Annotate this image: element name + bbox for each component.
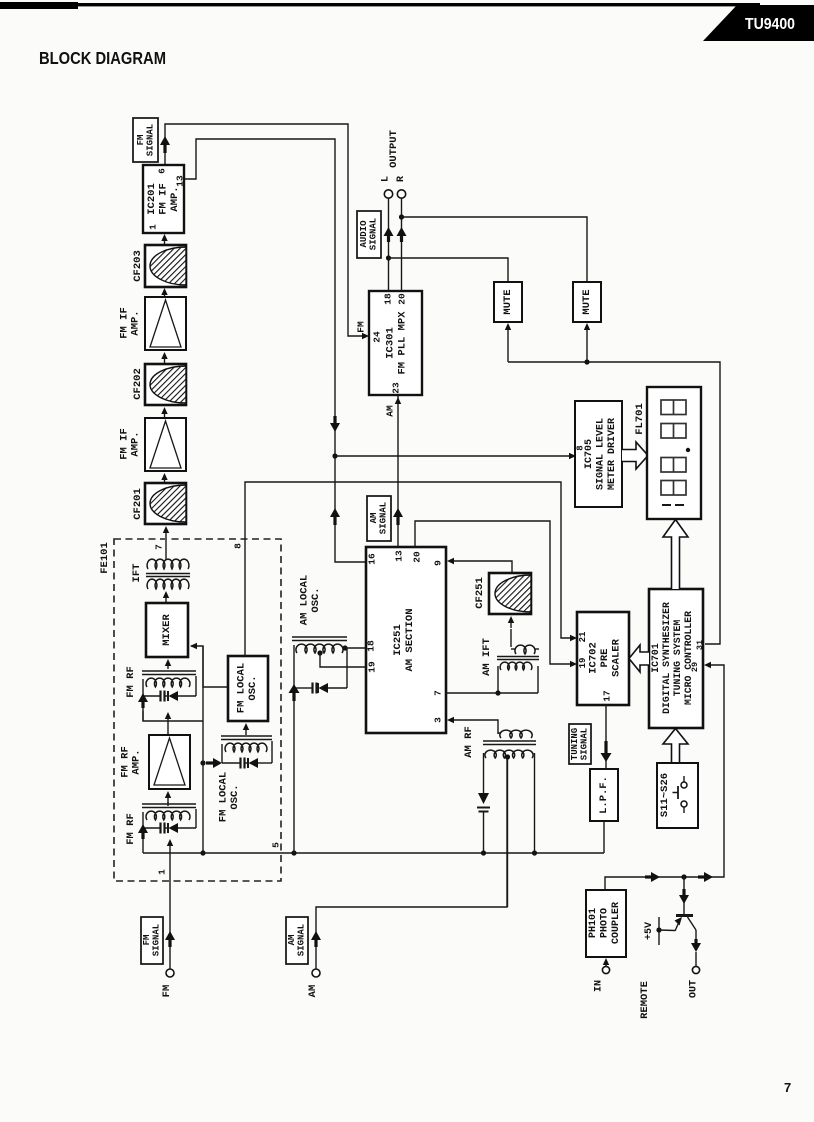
svg-text:1: 1	[157, 869, 168, 875]
svg-text:COUPLER: COUPLER	[611, 902, 622, 944]
wire IC301 pin20 to R output	[401, 199, 403, 292]
svg-text:AM: AM	[307, 985, 319, 998]
node tuning junction FE101	[200, 850, 205, 855]
svg-text:23: 23	[391, 382, 402, 394]
svg-text:24: 24	[372, 331, 383, 343]
amplifier FM IF AMP 1	[145, 297, 186, 350]
node mute2 branch	[584, 359, 589, 364]
wire IC251 pin20 AM LO to IC702 pin19	[415, 521, 571, 664]
photocoupler PH101	[586, 890, 626, 957]
black arrow audio R	[397, 227, 407, 236]
wire AM antenna to AM RF	[316, 758, 507, 969]
wire CF251 to IC251 pin9	[449, 561, 512, 573]
svg-text:AM RF: AM RF	[463, 726, 475, 758]
svg-text:OSC.: OSC.	[247, 675, 259, 700]
svg-text:REMOTE: REMOTE	[639, 981, 651, 1019]
svg-text:FM IF: FM IF	[158, 183, 170, 215]
svg-text:CF202: CF202	[132, 368, 144, 400]
svg-text:S11~S26: S11~S26	[659, 773, 671, 817]
svg-text:CF251: CF251	[474, 577, 486, 609]
wire L to MUTE1	[389, 258, 509, 282]
wire +5V supply	[658, 917, 660, 945]
svg-text:IC251: IC251	[392, 624, 404, 656]
node AM local center tap	[317, 650, 322, 655]
svg-text:IFT: IFT	[131, 564, 143, 583]
svg-text:CF203: CF203	[132, 250, 144, 282]
node AM RF ground leg	[532, 850, 537, 855]
wire FM local osc to mixer	[191, 646, 228, 687]
varactor arrow FM RF 1	[138, 824, 148, 833]
black arrow AM input	[311, 931, 321, 940]
ic IC701 DIGITAL SYNTHESIZER	[649, 589, 703, 728]
svg-text:31: 31	[695, 640, 705, 650]
wire coil to IC251 pin18	[345, 647, 366, 649]
svg-text:SIGNAL: SIGNAL	[151, 924, 161, 956]
node AM local varactor	[291, 850, 296, 855]
TU9400 model banner	[703, 5, 814, 41]
transformer IFT	[147, 559, 189, 569]
svg-text:SIGNAL: SIGNAL	[145, 124, 155, 156]
svg-text:17: 17	[602, 690, 613, 702]
module FE101 dashed outline	[114, 539, 281, 881]
node AM IFT to pin7	[495, 690, 500, 695]
svg-text:13: 13	[175, 175, 186, 187]
box FM SIGNAL top	[133, 118, 158, 162]
node L to mute1	[386, 255, 391, 260]
svg-text:IN: IN	[594, 980, 605, 992]
svg-text:FM PLL MPX: FM PLL MPX	[397, 311, 409, 375]
svg-text:IC301: IC301	[385, 327, 397, 359]
wire mixer to IFT	[163, 591, 169, 598]
mute MUTE 1	[494, 282, 522, 322]
svg-text:SIGNAL LEVEL: SIGNAL LEVEL	[596, 418, 607, 490]
svg-text:FM: FM	[142, 935, 152, 946]
svg-text:18: 18	[383, 293, 394, 305]
wire AM IFT to IC251 pin7	[446, 692, 538, 694]
svg-text:OUT: OUT	[689, 980, 700, 998]
varactor arrow FM RF 2	[138, 693, 148, 702]
node AM RF center tap	[505, 754, 510, 759]
node tuning to FM local tank	[200, 760, 205, 765]
wire FM IF amp to CF203	[161, 288, 167, 295]
transistor Q701 remote switch	[683, 877, 685, 914]
hollow arrow S11-S26 to IC701	[663, 729, 688, 764]
switch symbol	[681, 782, 687, 788]
svg-text:AM: AM	[369, 513, 379, 524]
filter CF201	[145, 483, 186, 524]
svg-text:29: 29	[690, 662, 700, 672]
box AM SIGNAL input	[286, 917, 308, 964]
svg-text:AM LOCAL: AM LOCAL	[298, 575, 310, 625]
svg-text:PRE: PRE	[599, 649, 611, 668]
wire tank to FM local osc	[243, 723, 249, 730]
svg-text:AM: AM	[287, 935, 297, 946]
black arrow FM IF level down	[330, 423, 340, 432]
svg-text:+5V: +5V	[644, 922, 655, 940]
black arrow remote 2	[704, 872, 713, 882]
box TUNING SIGNAL	[569, 724, 591, 764]
svg-text:20: 20	[397, 293, 408, 305]
svg-text:MUTE: MUTE	[581, 289, 593, 314]
svg-text:AMP.: AMP.	[130, 310, 142, 335]
svg-text:AMP.: AMP.	[131, 749, 143, 774]
varactor diode AM RF	[478, 793, 489, 804]
svg-text:SCALER: SCALER	[611, 638, 623, 677]
svg-text:SIGNAL: SIGNAL	[378, 502, 388, 534]
svg-text:TU9400: TU9400	[745, 16, 795, 33]
svg-text:IC705: IC705	[584, 439, 595, 469]
node AM local coil to pin18	[342, 645, 347, 650]
svg-text:AM: AM	[385, 405, 396, 417]
svg-text:MIXER: MIXER	[161, 614, 173, 646]
transformer AM IFT	[515, 645, 535, 654]
varactor arrow FM LOCAL	[213, 758, 222, 768]
terminal remote IN	[602, 966, 609, 973]
svg-text:L.P.F.: L.P.F.	[598, 776, 610, 814]
mute MUTE 2	[573, 282, 601, 322]
black arrow AM level up	[330, 508, 340, 517]
svg-text:PHOTO: PHOTO	[600, 908, 611, 938]
svg-text:TUNING SYSTEM: TUNING SYSTEM	[672, 620, 683, 697]
svg-text:1: 1	[148, 224, 159, 230]
black arrow tuning signal down	[601, 753, 612, 762]
svg-text:FL701: FL701	[634, 403, 646, 435]
digit 8 third	[661, 458, 686, 473]
tuned circuit FM LOCAL OSC tank	[221, 735, 272, 737]
wire LPF to tuning bus	[603, 821, 605, 853]
svg-text:FM: FM	[161, 985, 173, 998]
svg-text:IC702: IC702	[588, 642, 600, 674]
svg-text:AMP.: AMP.	[169, 186, 181, 211]
filter CF202	[145, 364, 186, 405]
svg-text:IC201: IC201	[146, 183, 158, 215]
svg-text:SIGNAL: SIGNAL	[579, 728, 589, 760]
svg-text:FM LOCAL: FM LOCAL	[217, 772, 229, 822]
filter CF251	[489, 573, 531, 614]
black arrow FM input	[165, 931, 175, 940]
wire IC702 pin17 to LPF	[605, 705, 607, 769]
svg-text:19: 19	[578, 658, 588, 669]
terminal AM antenna	[312, 969, 320, 977]
node remote to transistor	[681, 874, 686, 879]
filter CF203	[145, 245, 186, 287]
node R to mute2	[399, 214, 404, 219]
ic IC301 FM PLL MPX	[369, 291, 422, 395]
wire IC201 pin13 to meter node	[184, 139, 366, 562]
decimal point	[686, 448, 690, 452]
terminal L output	[384, 190, 392, 198]
node AM RF varactor	[481, 850, 486, 855]
svg-text:3: 3	[433, 717, 444, 723]
svg-text:DIGITAL SYNTHESIZER: DIGITAL SYNTHESIZER	[661, 602, 672, 714]
display FL701	[647, 387, 701, 519]
svg-text:6: 6	[157, 168, 168, 174]
svg-text:OSC.: OSC.	[229, 784, 241, 809]
wire meter node to IC705 pin8	[335, 455, 570, 457]
svg-text:FM RF: FM RF	[125, 666, 137, 698]
black arrow FM signal out	[160, 136, 170, 145]
svg-text:OUTPUT: OUTPUT	[388, 130, 400, 168]
svg-text:FM: FM	[136, 135, 146, 146]
hollow arrow IC701 to FL701	[663, 520, 688, 590]
wire AM RF to IC251 pin3	[449, 720, 498, 734]
svg-text:19: 19	[367, 661, 378, 673]
black arrow remote 1	[651, 872, 660, 882]
wire mute control bus	[508, 362, 720, 644]
wire tuning voltage bus	[143, 852, 604, 854]
wire pin8 FM LO out to IC702 pin21	[245, 482, 571, 656]
hollow arrow IC705 to FL701	[622, 442, 648, 469]
svg-text:7: 7	[433, 690, 444, 696]
wire FM IF amp2 to CF202	[161, 407, 167, 414]
wire R to MUTE2	[402, 217, 588, 282]
svg-text:CF201: CF201	[132, 488, 144, 520]
amplifier FM RF AMP	[149, 735, 190, 789]
tuned circuit FM RF 1	[142, 803, 196, 805]
switch block S11~S26	[657, 763, 698, 828]
svg-text:MUTE: MUTE	[502, 289, 514, 314]
svg-text:L: L	[381, 176, 392, 182]
wire CF203 to IC201	[161, 234, 167, 241]
wire varactor FM RF2 to tuning line	[143, 711, 203, 721]
svg-text:8: 8	[576, 445, 586, 450]
svg-text:FE101: FE101	[99, 542, 111, 574]
wire center tap to IC251 pin19	[320, 653, 366, 667]
varactor arrow AM LOCAL	[289, 684, 300, 693]
svg-text:SIGNAL: SIGNAL	[368, 218, 378, 250]
oscillator FM LOCAL OSC block	[228, 656, 268, 721]
svg-text:5: 5	[271, 842, 282, 848]
ic IC702 PRE SCALER	[577, 612, 629, 705]
svg-text:AM IFT: AM IFT	[481, 638, 493, 676]
svg-text:8: 8	[233, 543, 244, 549]
svg-text:AM SECTION: AM SECTION	[404, 608, 416, 671]
svg-text:IC701: IC701	[650, 643, 661, 673]
svg-text:MICRO CONTROLLER: MICRO CONTROLLER	[683, 611, 694, 705]
svg-text:21: 21	[578, 631, 588, 642]
svg-text:AUDIO: AUDIO	[359, 220, 369, 248]
op-amp IC201 FM IF AMP	[143, 165, 184, 233]
tuned circuit FM RF 2	[165, 659, 171, 666]
svg-text:13: 13	[394, 550, 405, 562]
digit 8 second	[661, 424, 686, 439]
wire IC301 pin23 to IC251 pin13	[397, 395, 399, 547]
black arrow audio L	[384, 227, 394, 236]
svg-text:AMP.: AMP.	[130, 431, 142, 456]
box AM SIGNAL mid	[367, 496, 391, 541]
svg-text:FM LOCAL: FM LOCAL	[235, 663, 247, 713]
svg-text:OSC.: OSC.	[310, 587, 322, 612]
svg-text:PH101: PH101	[588, 908, 599, 938]
svg-text:SIGNAL: SIGNAL	[296, 924, 306, 956]
svg-text:20: 20	[412, 551, 423, 563]
svg-text:18: 18	[366, 640, 377, 652]
terminal FM antenna	[166, 969, 174, 977]
svg-text:7: 7	[784, 1080, 791, 1095]
filter L.P.F.	[590, 769, 618, 821]
wire tuning bus vertical FE101	[202, 646, 204, 853]
terminal remote OUT	[692, 966, 699, 973]
wire FM RF1 to FM RF AMP	[167, 802, 169, 806]
box FM SIGNAL input	[141, 917, 163, 964]
svg-text:R: R	[396, 176, 407, 182]
hollow arrow IC701 to IC702	[629, 645, 649, 672]
digit 8 first	[661, 400, 686, 415]
wire AM IFT to CF251	[510, 629, 512, 647]
wire IC301 pin18 to L output	[388, 199, 390, 292]
svg-text:FM: FM	[356, 321, 367, 333]
wire FM RF AMP to FM RF2 row	[165, 712, 171, 719]
terminal R output	[397, 190, 405, 198]
wire IFT to CF201 pin7	[165, 540, 167, 559]
node meter junction	[332, 453, 337, 458]
svg-text:16: 16	[367, 553, 378, 565]
svg-text:9: 9	[433, 560, 444, 566]
svg-text:TUNING: TUNING	[570, 728, 580, 760]
wire CF202 to FM IF amp	[161, 352, 167, 359]
top rule	[0, 2, 78, 9]
digit 1	[662, 504, 671, 506]
digit 8 fourth	[661, 481, 686, 496]
box AUDIO SIGNAL	[357, 211, 381, 258]
wire remote line to IC701 pin29	[605, 665, 724, 890]
svg-text:METER DRIVER: METER DRIVER	[607, 418, 618, 490]
ic IC705 SIGNAL LEVEL METER DRIVER	[575, 401, 622, 507]
mixer MIXER	[146, 603, 188, 657]
black arrow AM detected up	[393, 508, 403, 517]
wire FM antenna into FM RF1	[169, 846, 171, 969]
amplifier FM IF AMP 2	[145, 418, 186, 471]
svg-text:BLOCK DIAGRAM: BLOCK DIAGRAM	[39, 48, 166, 68]
emitter arrow	[675, 920, 680, 932]
wire CF201 to FM IF amp2	[161, 473, 167, 480]
svg-text:FM RF: FM RF	[125, 813, 137, 845]
ic IC251 AM SECTION	[366, 547, 446, 733]
wire FM SIGNAL to IC301 pin24	[165, 124, 366, 336]
svg-text:7: 7	[154, 544, 165, 550]
